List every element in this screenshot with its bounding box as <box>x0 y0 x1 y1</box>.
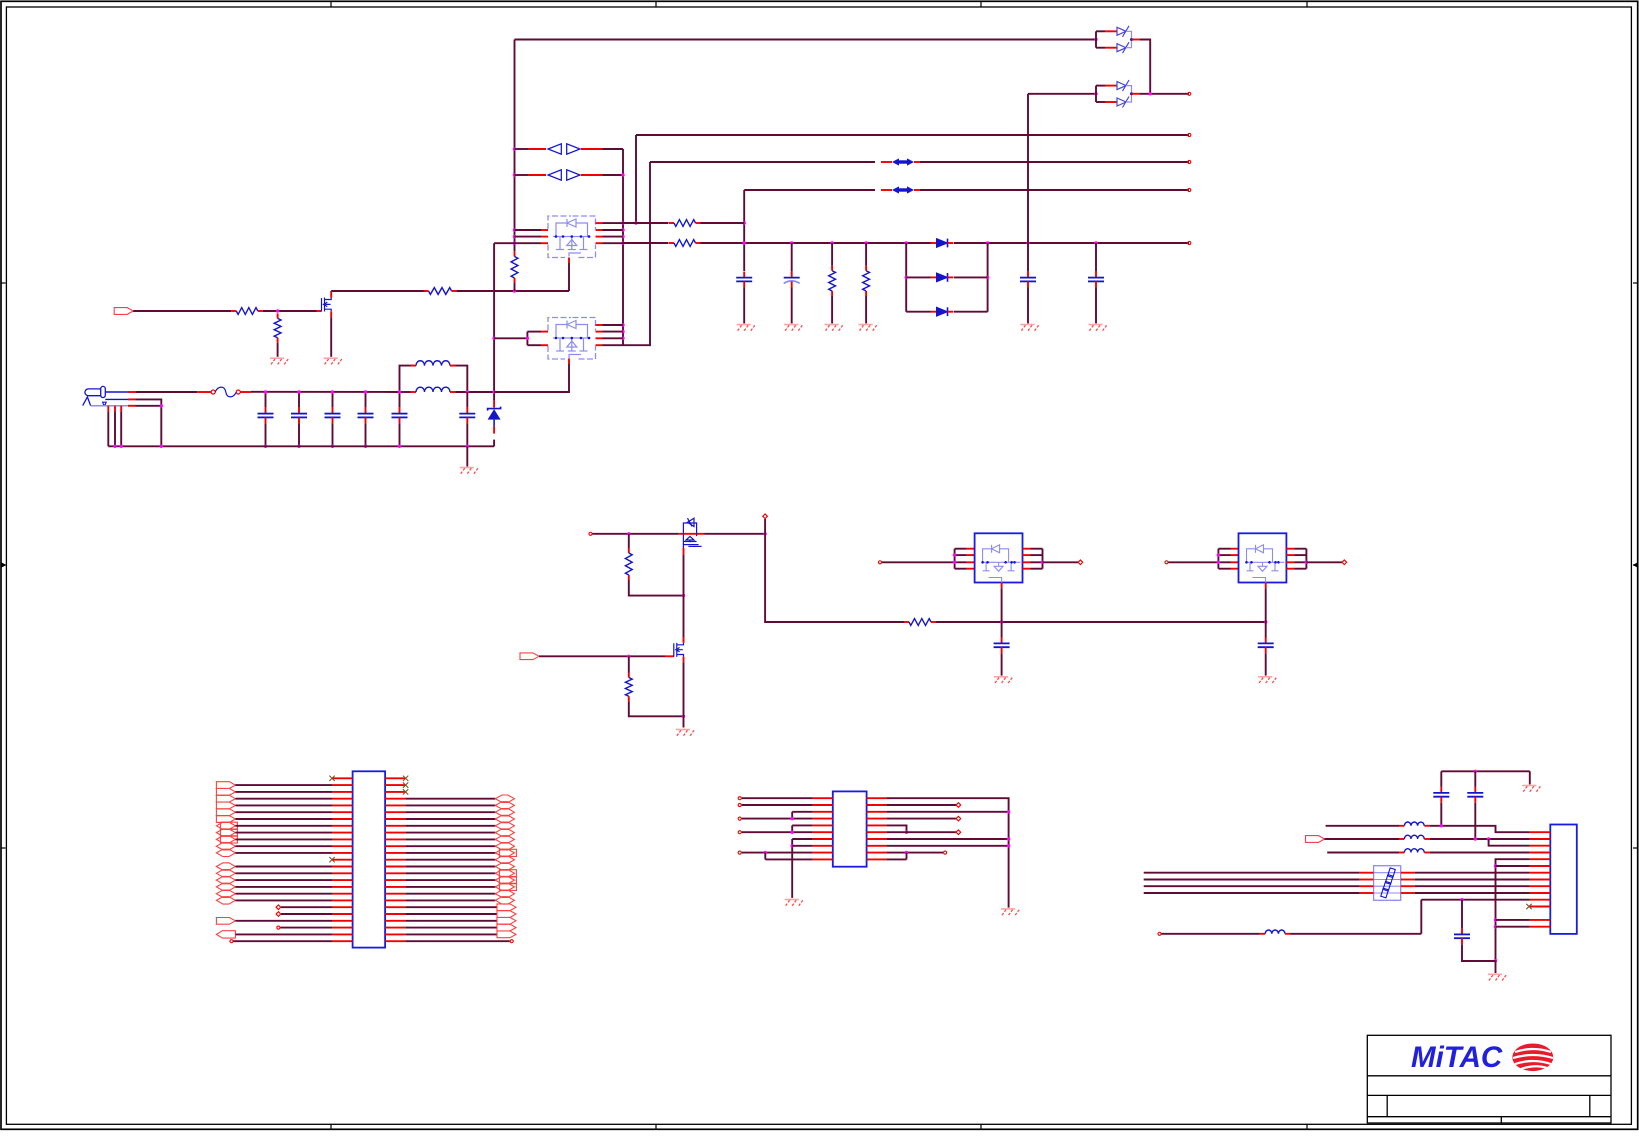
net flag R15 <box>499 877 516 884</box>
wire J2 R9 <box>406 838 496 840</box>
junction <box>1494 918 1497 921</box>
connector J2 pin row 17 <box>332 886 353 888</box>
connector J3 pin <box>1530 845 1551 847</box>
wire U1 R9 drop <box>906 853 908 860</box>
wire row4 a <box>1327 852 1399 854</box>
wire U1 L9 <box>742 852 813 854</box>
net flag R23 <box>497 931 516 938</box>
wire C10 gnd lead <box>1095 287 1097 323</box>
connector J3 pin <box>1530 899 1551 901</box>
wire rail243 a <box>623 242 669 244</box>
resistor network RN1 <box>1374 866 1401 901</box>
wire C11 top lead <box>1001 622 1003 638</box>
bidirectional element AR2 <box>892 186 899 193</box>
wire R11 bot wire <box>629 701 684 716</box>
connector J2 pin row 23 <box>332 927 353 929</box>
junction <box>113 445 116 448</box>
wire fet6 out <box>1306 561 1342 563</box>
wire J2 L16 <box>235 886 332 888</box>
wire jack pin2 <box>128 398 135 400</box>
wire J2 R6 <box>406 818 496 820</box>
net flag L13 <box>216 863 235 870</box>
wire bundle1 <box>1144 879 1360 881</box>
wire loop left <box>905 243 907 312</box>
wire Q6 right bracket <box>1042 549 1044 569</box>
capacitor C6 <box>466 408 468 414</box>
connector J3 pin <box>1530 872 1551 874</box>
ground <box>1522 785 1536 787</box>
wire gate in <box>133 310 231 312</box>
IC U1 pin <box>812 858 832 860</box>
connector J3 pin <box>1530 858 1551 860</box>
junction <box>682 594 685 597</box>
centering arrow right <box>1633 563 1638 568</box>
junction <box>513 228 516 231</box>
junction <box>1007 837 1010 840</box>
junction <box>1264 620 1267 623</box>
junction <box>1007 810 1010 813</box>
capacitor C2 <box>298 408 300 414</box>
no-connect NC R2 <box>403 789 408 794</box>
junction <box>830 241 833 244</box>
junction <box>364 390 367 393</box>
wire net row 162b <box>920 161 1189 163</box>
junction <box>331 390 334 393</box>
junction <box>905 241 908 244</box>
wire U1 L8 <box>792 845 812 847</box>
net flag L17 <box>216 890 235 897</box>
resistor R3 <box>424 290 429 292</box>
wire J2 R21 <box>406 920 497 922</box>
wire mid rail L <box>765 534 904 622</box>
junction <box>513 147 516 150</box>
junction <box>953 561 956 564</box>
wire gnd col right <box>1496 859 1530 961</box>
connector J2 pin row 10 <box>332 838 353 840</box>
IC U1 pin <box>812 852 832 854</box>
junction <box>1305 561 1308 564</box>
net flag R9 <box>495 836 514 843</box>
ground <box>676 729 690 731</box>
wire U1 L4 <box>742 818 813 820</box>
net flag R11 <box>499 849 516 856</box>
port P10 <box>1165 561 1168 564</box>
diode D5 <box>931 276 937 278</box>
wire Q7 right bracket <box>1305 549 1307 569</box>
net flag R16 <box>499 883 516 890</box>
wire U1 R6 <box>887 831 957 833</box>
wire C2 top lead <box>298 392 300 408</box>
wire C3 top lead <box>332 392 334 408</box>
ground <box>825 324 839 326</box>
connector J2 pin row 12 <box>332 852 353 854</box>
port P6 <box>589 532 592 535</box>
port P3 <box>1188 188 1191 191</box>
transistor Q1 <box>322 298 332 312</box>
dual schottky diode D7 <box>1095 31 1097 47</box>
wire C10 top lead <box>1095 243 1097 272</box>
wire pin6 wire <box>1496 865 1530 867</box>
ground <box>1020 324 1034 326</box>
net flag port SW <box>520 653 539 660</box>
net flag L2 <box>216 789 235 796</box>
junction <box>1094 38 1097 41</box>
connector J2 pin row 6 <box>332 811 353 813</box>
ground <box>324 357 338 359</box>
wire D8 out <box>1140 93 1189 95</box>
wire J2 R13 <box>406 866 496 868</box>
wire U1 L10 <box>765 858 812 860</box>
net flag L3 <box>216 795 235 802</box>
net flag port rowB <box>1306 836 1325 843</box>
net flag R21 <box>497 918 516 925</box>
wire row2 b <box>1430 838 1530 840</box>
wire dp1 right <box>603 148 624 150</box>
net flag L11 <box>216 849 235 856</box>
wire C14 top lead <box>1474 771 1476 787</box>
connector J2 pin row 20 <box>332 906 353 908</box>
wire sleeve3 <box>120 412 122 446</box>
wire R7 top lead <box>831 243 833 266</box>
junction <box>743 221 746 224</box>
connector J2 <box>353 771 386 947</box>
inductor L4 <box>1399 838 1405 840</box>
wire dp2 left <box>515 174 529 176</box>
connector J3 pin <box>1530 838 1551 840</box>
net flag R18 <box>495 897 514 904</box>
diode pair D2 <box>548 144 561 154</box>
wire port drop <box>764 519 766 534</box>
wire J2 L19 <box>281 906 332 908</box>
wire Q3 pin r4 to col <box>603 162 651 345</box>
dual schottky diode D8 <box>1095 86 1097 102</box>
wire fet5 out <box>1043 561 1079 563</box>
wire top rail <box>515 39 1097 41</box>
connector J2 pin row 3 <box>332 791 353 793</box>
wire Q5 src gnd <box>683 662 685 727</box>
diode D6 <box>931 311 937 313</box>
IC U1 pin <box>812 838 832 840</box>
wire sleeve wire <box>136 405 162 407</box>
junction <box>1474 770 1477 773</box>
wire J2 R10 <box>406 845 496 847</box>
port P5 <box>1188 92 1191 95</box>
connector J2 pin row 14 <box>332 866 353 868</box>
ground <box>784 324 798 326</box>
wire L2 left <box>400 391 411 393</box>
ground <box>460 467 474 469</box>
wire J2 L3 <box>235 798 332 800</box>
connector J3 pin <box>1530 885 1551 887</box>
wire Q3 pin r2 <box>603 331 624 333</box>
wire J2 L18 <box>235 899 332 901</box>
port P1 <box>1188 133 1191 136</box>
IC U1 pin <box>812 831 832 833</box>
wire col x744 <box>743 190 745 271</box>
net flag L10 <box>216 843 235 850</box>
wire Q2 pin wire <box>515 229 542 231</box>
wire GND rail bottom <box>108 445 494 447</box>
port R24 <box>510 940 513 943</box>
connector J2 pin row 21 <box>332 913 353 915</box>
no-connect NC R1 <box>403 782 408 787</box>
junction <box>905 276 908 279</box>
wire jack sleeve drops <box>107 406 109 412</box>
wire Q3 left bracket <box>526 332 528 346</box>
wire J2 L1 <box>235 784 332 786</box>
junction <box>682 715 685 718</box>
IC U1 pin <box>812 818 832 820</box>
wire L2 right <box>456 391 495 393</box>
IC U1 pin <box>812 797 832 799</box>
wire J2 R5 <box>406 811 496 813</box>
junction <box>763 532 766 535</box>
wire L1 right leg <box>453 366 468 392</box>
junction <box>1026 241 1029 244</box>
IC U1 pin <box>812 845 832 847</box>
wire Q7 gate drop <box>1265 588 1267 622</box>
junction <box>1460 898 1463 901</box>
wire bundle3 <box>1144 892 1360 894</box>
wire J2 L5 <box>235 811 332 813</box>
wire U1 L3 <box>792 811 812 813</box>
port P20 <box>944 851 947 854</box>
junction <box>364 445 367 448</box>
wire C9 gnd lead <box>1027 287 1029 323</box>
junction <box>791 831 794 834</box>
port P7 <box>763 514 768 519</box>
diode pair D3 <box>548 170 561 180</box>
net flag L6 <box>216 816 235 823</box>
wire J2 L4 <box>235 804 332 806</box>
inductor L2 <box>411 391 417 393</box>
port L22 <box>277 926 280 929</box>
ground <box>1001 908 1015 910</box>
resistor R1 <box>231 310 236 312</box>
wire fet6 in <box>1169 561 1219 563</box>
wire U1 R9 <box>887 852 944 854</box>
junction <box>621 221 624 224</box>
wire R4 bottom <box>514 283 516 291</box>
wire C7 gnd lead <box>743 287 745 323</box>
wire row1 a <box>1326 825 1399 827</box>
connector J2 pin row 15 <box>332 872 353 874</box>
resistor R5 <box>669 222 674 224</box>
junction <box>276 309 279 312</box>
port P15 <box>738 831 741 834</box>
wire R8 top lead <box>865 243 867 266</box>
wire J2 L10 <box>235 845 332 847</box>
net flag L23 <box>216 931 235 938</box>
net flag L4 <box>216 802 235 809</box>
wire pin11 wire <box>1421 899 1529 901</box>
wire pin14 wire <box>1496 926 1530 928</box>
wire loop bot r <box>954 311 988 313</box>
wire Q2 pin wire r <box>603 236 624 238</box>
junction <box>953 553 956 556</box>
wire U1 L5 <box>792 824 812 826</box>
wire J2 R23 <box>406 933 497 935</box>
wire net row 190a <box>744 189 875 191</box>
wire J2 R14 <box>406 872 496 874</box>
connector J3 pin <box>1530 892 1551 894</box>
wire C13 top lead <box>1440 771 1442 787</box>
fuse F1 <box>211 390 215 394</box>
connector J2 pin row 1 <box>332 777 353 779</box>
wire row3 jog <box>1489 839 1530 846</box>
wire J2 R4 <box>406 804 496 806</box>
connector J2 pin row 5 <box>332 804 353 806</box>
wire bundle3b <box>1415 892 1530 894</box>
wire mid rail R <box>936 621 1266 623</box>
junction <box>513 173 516 176</box>
no-connect NC R0 <box>403 776 408 781</box>
junction <box>1149 92 1152 95</box>
no-connect NC L0 <box>329 776 334 781</box>
wire mid in <box>593 533 679 535</box>
wire bundle0b <box>1415 872 1530 874</box>
wire gate in 2 <box>263 310 317 312</box>
port P17 <box>956 803 961 808</box>
transistor package Q2 <box>548 216 596 258</box>
wire C4 top lead <box>365 392 367 408</box>
port P8 <box>878 561 881 564</box>
net flag R10 <box>495 843 514 850</box>
wire J2 R3 <box>406 798 496 800</box>
capacitor C13 <box>1440 787 1442 793</box>
wire C12 top lead <box>1265 622 1267 638</box>
wire VIN to fuse <box>135 391 197 393</box>
wire J2 R19 <box>406 906 497 908</box>
wire J2 L14 <box>235 872 332 874</box>
net flag R8 <box>495 829 514 836</box>
ground <box>737 324 751 326</box>
wire Q7 left bracket <box>1217 549 1219 569</box>
wire C5 top lead <box>399 392 401 408</box>
wire R8 gnd lead <box>865 296 867 323</box>
port P16 <box>738 851 741 854</box>
resistor R2 <box>277 313 279 318</box>
wire U1 R4 <box>887 818 957 820</box>
net flag L21 <box>216 918 235 925</box>
connector J2 pin row 11 <box>332 845 353 847</box>
capacitor C3 <box>332 408 334 414</box>
resistor R9 <box>904 621 909 623</box>
junction <box>621 337 624 340</box>
port P12 <box>738 797 741 800</box>
wire Q1 source gnd <box>330 317 332 357</box>
junction <box>1217 553 1220 556</box>
connector J3 pin <box>1530 879 1551 881</box>
wire Q3 gate to rail <box>494 364 569 392</box>
wire U1 L6 <box>742 831 813 833</box>
junction <box>621 235 624 238</box>
junction <box>621 323 624 326</box>
wire R7 gnd lead <box>831 296 833 323</box>
junction <box>1094 241 1097 244</box>
port L24 <box>230 940 233 943</box>
connector J2 pin row 24 <box>332 933 353 935</box>
wire R2 gnd lead <box>277 343 279 357</box>
inductor L1 <box>411 365 417 367</box>
junction <box>1494 959 1497 962</box>
wire U1 L9 drop <box>764 853 766 860</box>
net flag R13 <box>495 863 514 870</box>
wire R10 bot wire <box>629 580 684 596</box>
junction <box>1487 837 1490 840</box>
port P9 <box>1078 560 1083 565</box>
junction <box>864 241 867 244</box>
port L20 <box>276 912 281 917</box>
junction <box>297 445 300 448</box>
capacitor C9 <box>1027 272 1029 278</box>
junction <box>1094 92 1097 95</box>
connector J2 pin row 18 <box>332 893 353 895</box>
wire Q2 pin wire r <box>603 229 624 231</box>
wire J2 L22 <box>280 927 332 929</box>
junction <box>621 330 624 333</box>
wire net row 135 <box>636 134 1189 136</box>
title block <box>1367 1035 1611 1123</box>
wire U1 R3 <box>887 811 1009 813</box>
net flag L7 <box>220 822 237 829</box>
junction <box>627 532 630 535</box>
wire bundle2 <box>1144 885 1360 887</box>
wire gnd drop <box>1529 771 1531 784</box>
junction <box>1474 837 1477 840</box>
wire C4 bottom lead <box>365 423 367 446</box>
wire loop mid r <box>954 276 988 278</box>
junction <box>513 242 516 245</box>
wire net row 190b <box>920 189 1189 191</box>
junction <box>1007 844 1010 847</box>
wire Q2 pin wire <box>515 236 542 238</box>
junction <box>986 241 989 244</box>
junction <box>764 851 767 854</box>
wire C8 gnd lead <box>791 287 793 323</box>
wire J2 L7 <box>235 825 332 827</box>
connector J2 pin row 9 <box>332 832 353 834</box>
wire col 1028 <box>1027 94 1029 272</box>
junction <box>160 445 163 448</box>
junction <box>492 337 495 340</box>
connector J3 pin <box>1530 926 1551 928</box>
wire J2 L2 <box>235 791 332 793</box>
wire J2 L23 <box>235 933 332 935</box>
wire ZD1 upper lead <box>493 243 495 400</box>
junction <box>1494 925 1497 928</box>
junction <box>331 445 334 448</box>
junction <box>120 445 123 448</box>
transistor package Q3 <box>548 318 596 360</box>
junction <box>905 851 908 854</box>
wire J2 L15 <box>235 879 332 881</box>
wire pin13 wire <box>1496 919 1530 921</box>
net flag R3 <box>495 795 514 802</box>
net flag L8 <box>220 829 237 836</box>
wire col x636 <box>635 135 637 223</box>
connector J3 <box>1550 825 1577 934</box>
no-connect NC J3 <box>1526 904 1531 909</box>
junction <box>905 831 908 834</box>
wire bot in <box>1162 933 1260 935</box>
wire J2 R11 <box>406 852 496 854</box>
connector J1 DC jack <box>83 386 107 406</box>
junction <box>513 235 516 238</box>
port P21 <box>1158 932 1161 935</box>
capacitor C11 <box>1001 637 1003 643</box>
wire U1 L7 <box>792 838 812 840</box>
